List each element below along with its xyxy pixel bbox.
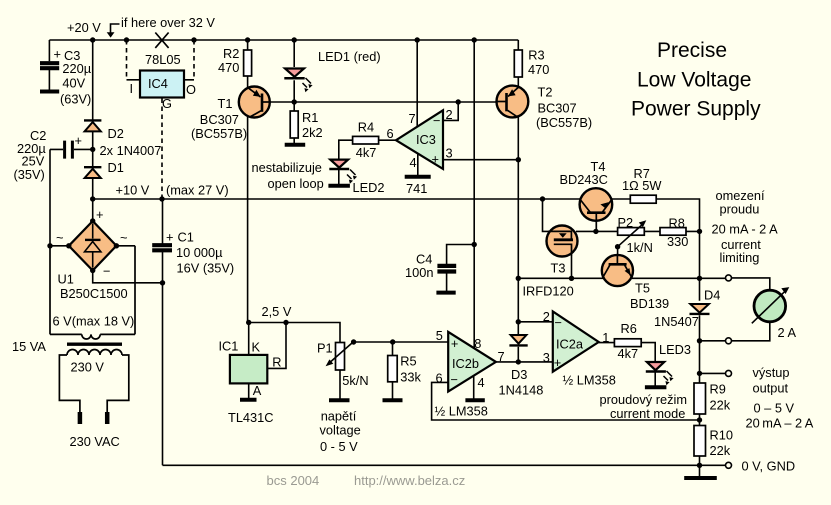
- svg-text:5k/N: 5k/N: [342, 373, 368, 388]
- svg-text:current mode: current mode: [610, 406, 685, 421]
- svg-text:D3: D3: [511, 367, 527, 382]
- svg-text:(max 27 V): (max 27 V): [166, 183, 229, 198]
- svg-text:IC4: IC4: [148, 76, 168, 91]
- svg-text:230 V: 230 V: [71, 360, 105, 375]
- svg-text:470: 470: [218, 60, 239, 75]
- svg-text:2 A: 2 A: [778, 325, 797, 340]
- svg-text:+: +: [96, 207, 103, 222]
- svg-text:IC1: IC1: [219, 339, 239, 354]
- svg-text:R5: R5: [400, 353, 416, 368]
- svg-text:½ LM358: ½ LM358: [563, 373, 616, 388]
- svg-text:C1: C1: [178, 230, 194, 245]
- svg-text:+: +: [75, 133, 82, 148]
- svg-text:20 mA – 2 A: 20 mA – 2 A: [746, 416, 814, 431]
- svg-text:1: 1: [602, 330, 609, 345]
- svg-text:R1: R1: [302, 110, 318, 125]
- svg-text:G: G: [162, 96, 172, 111]
- svg-text:20 mA - 2 A: 20 mA - 2 A: [712, 222, 779, 237]
- svg-text:if here over 32 V: if here over 32 V: [121, 15, 215, 30]
- svg-text:output: output: [753, 381, 789, 396]
- svg-text:2,5 V: 2,5 V: [262, 304, 292, 319]
- svg-text:+10 V: +10 V: [116, 183, 150, 198]
- svg-text:LED2: LED2: [353, 180, 385, 195]
- svg-text:R3: R3: [528, 47, 544, 62]
- svg-text:nestabilizuje: nestabilizuje: [252, 160, 322, 175]
- svg-text:0 V, GND: 0 V, GND: [742, 459, 796, 474]
- svg-text:+: +: [451, 336, 458, 351]
- svg-text:(BC557B): (BC557B): [191, 126, 247, 141]
- svg-text:BC307: BC307: [538, 100, 577, 115]
- svg-text:IRFD120: IRFD120: [523, 284, 574, 299]
- svg-text:6: 6: [436, 371, 443, 386]
- svg-text:0 – 5 V: 0 – 5 V: [754, 401, 795, 416]
- svg-text:−: −: [433, 113, 440, 128]
- svg-text:O: O: [186, 82, 196, 97]
- svg-text:22k: 22k: [710, 398, 731, 413]
- svg-text:BD243C: BD243C: [560, 172, 608, 187]
- svg-text:Power Supply: Power Supply: [631, 98, 761, 121]
- svg-text:1k/N: 1k/N: [627, 240, 653, 255]
- svg-text:8: 8: [474, 336, 481, 351]
- svg-text:BC307: BC307: [200, 112, 239, 127]
- svg-text:R10: R10: [710, 428, 733, 443]
- svg-text:+: +: [166, 230, 173, 245]
- svg-text:T2: T2: [538, 85, 553, 100]
- svg-text:2x 1N4007: 2x 1N4007: [100, 143, 162, 158]
- svg-text:LED3: LED3: [659, 342, 691, 357]
- svg-text:3: 3: [543, 350, 550, 365]
- svg-text:D4: D4: [704, 288, 720, 303]
- svg-text:TL431C: TL431C: [228, 410, 274, 425]
- svg-text:(BC557B): (BC557B): [536, 115, 592, 130]
- svg-text:D1: D1: [108, 160, 124, 175]
- svg-text:741: 741: [406, 181, 427, 196]
- svg-text:voltage: voltage: [320, 423, 361, 438]
- svg-text:7: 7: [409, 111, 416, 126]
- svg-text:P2: P2: [618, 215, 634, 230]
- svg-text:IC2a: IC2a: [556, 336, 584, 351]
- svg-text:B250C1500: B250C1500: [60, 286, 128, 301]
- svg-text:0 - 5 V: 0 - 5 V: [320, 439, 358, 454]
- svg-text:4k7: 4k7: [356, 145, 377, 160]
- svg-text:6: 6: [387, 126, 394, 141]
- svg-text:4: 4: [410, 155, 417, 170]
- svg-text:40V: 40V: [62, 76, 85, 91]
- svg-text:+: +: [432, 152, 439, 167]
- svg-text:~: ~: [56, 230, 63, 245]
- svg-text:+20 V: +20 V: [67, 20, 101, 35]
- svg-text:U1: U1: [58, 271, 74, 286]
- svg-text:I: I: [130, 81, 134, 96]
- svg-text:15 VA: 15 VA: [12, 339, 46, 354]
- svg-text:10 000µ: 10 000µ: [176, 245, 223, 260]
- svg-text:2k2: 2k2: [302, 125, 323, 140]
- svg-text:230 VAC: 230 VAC: [70, 434, 120, 449]
- svg-text:330: 330: [667, 234, 688, 249]
- svg-text:2: 2: [543, 309, 550, 324]
- svg-text:2: 2: [446, 107, 453, 122]
- svg-text:Precise: Precise: [657, 39, 727, 62]
- svg-text:P1: P1: [317, 341, 333, 356]
- svg-text:limiting: limiting: [720, 250, 760, 265]
- svg-text:R: R: [272, 355, 281, 370]
- svg-text:napětí: napětí: [321, 409, 357, 424]
- svg-text:K: K: [252, 340, 261, 355]
- svg-text:T3: T3: [551, 261, 566, 276]
- svg-text:R9: R9: [710, 381, 726, 396]
- svg-text:bcs 2004: bcs 2004: [267, 473, 320, 488]
- svg-text:R6: R6: [621, 321, 637, 336]
- svg-text:78L05: 78L05: [145, 52, 181, 67]
- svg-text:220µ: 220µ: [62, 61, 91, 76]
- svg-text:(35V): (35V): [14, 167, 45, 182]
- svg-text:IC2b: IC2b: [452, 356, 479, 371]
- svg-text:1N5407: 1N5407: [654, 314, 699, 329]
- svg-text:−: −: [555, 315, 562, 330]
- svg-text:proudu: proudu: [720, 202, 760, 217]
- svg-text:470: 470: [528, 62, 549, 77]
- svg-text:LED1 (red): LED1 (red): [318, 49, 381, 64]
- svg-text:6 V(max 18 V): 6 V(max 18 V): [53, 314, 135, 329]
- svg-text:Low Voltage: Low Voltage: [637, 69, 751, 92]
- svg-text:5: 5: [436, 328, 443, 343]
- svg-text:http://www.belza.cz: http://www.belza.cz: [354, 473, 465, 488]
- svg-text:BD139: BD139: [630, 296, 669, 311]
- svg-text:33k: 33k: [400, 370, 421, 385]
- svg-text:D2: D2: [108, 126, 124, 141]
- svg-text:T1: T1: [218, 96, 233, 111]
- svg-text:7: 7: [498, 349, 505, 364]
- svg-text:½ LM358: ½ LM358: [435, 404, 488, 419]
- svg-text:4k7: 4k7: [618, 346, 639, 361]
- svg-text:4: 4: [478, 375, 485, 390]
- svg-text:16V (35V): 16V (35V): [177, 261, 235, 276]
- svg-text:1Ω 5W: 1Ω 5W: [622, 178, 662, 193]
- svg-text:+: +: [554, 355, 561, 370]
- svg-text:−: −: [451, 372, 458, 387]
- svg-text:+: +: [54, 47, 61, 62]
- svg-text:−: −: [103, 264, 110, 279]
- svg-text:open loop: open loop: [268, 176, 324, 191]
- svg-text:R4: R4: [358, 119, 374, 134]
- svg-text:1N4148: 1N4148: [499, 383, 544, 398]
- svg-text:(63V): (63V): [60, 91, 91, 106]
- svg-text:22k: 22k: [710, 443, 731, 458]
- svg-text:R8: R8: [669, 216, 685, 231]
- svg-text:IC3: IC3: [416, 132, 436, 147]
- svg-text:proudový režim: proudový režim: [600, 392, 687, 407]
- svg-text:A: A: [253, 383, 262, 398]
- svg-text:~: ~: [120, 230, 127, 245]
- svg-text:100n: 100n: [405, 265, 433, 280]
- svg-text:T5: T5: [635, 281, 650, 296]
- svg-text:3: 3: [446, 146, 453, 161]
- svg-text:výstup: výstup: [753, 365, 790, 380]
- svg-text:R2: R2: [223, 46, 239, 61]
